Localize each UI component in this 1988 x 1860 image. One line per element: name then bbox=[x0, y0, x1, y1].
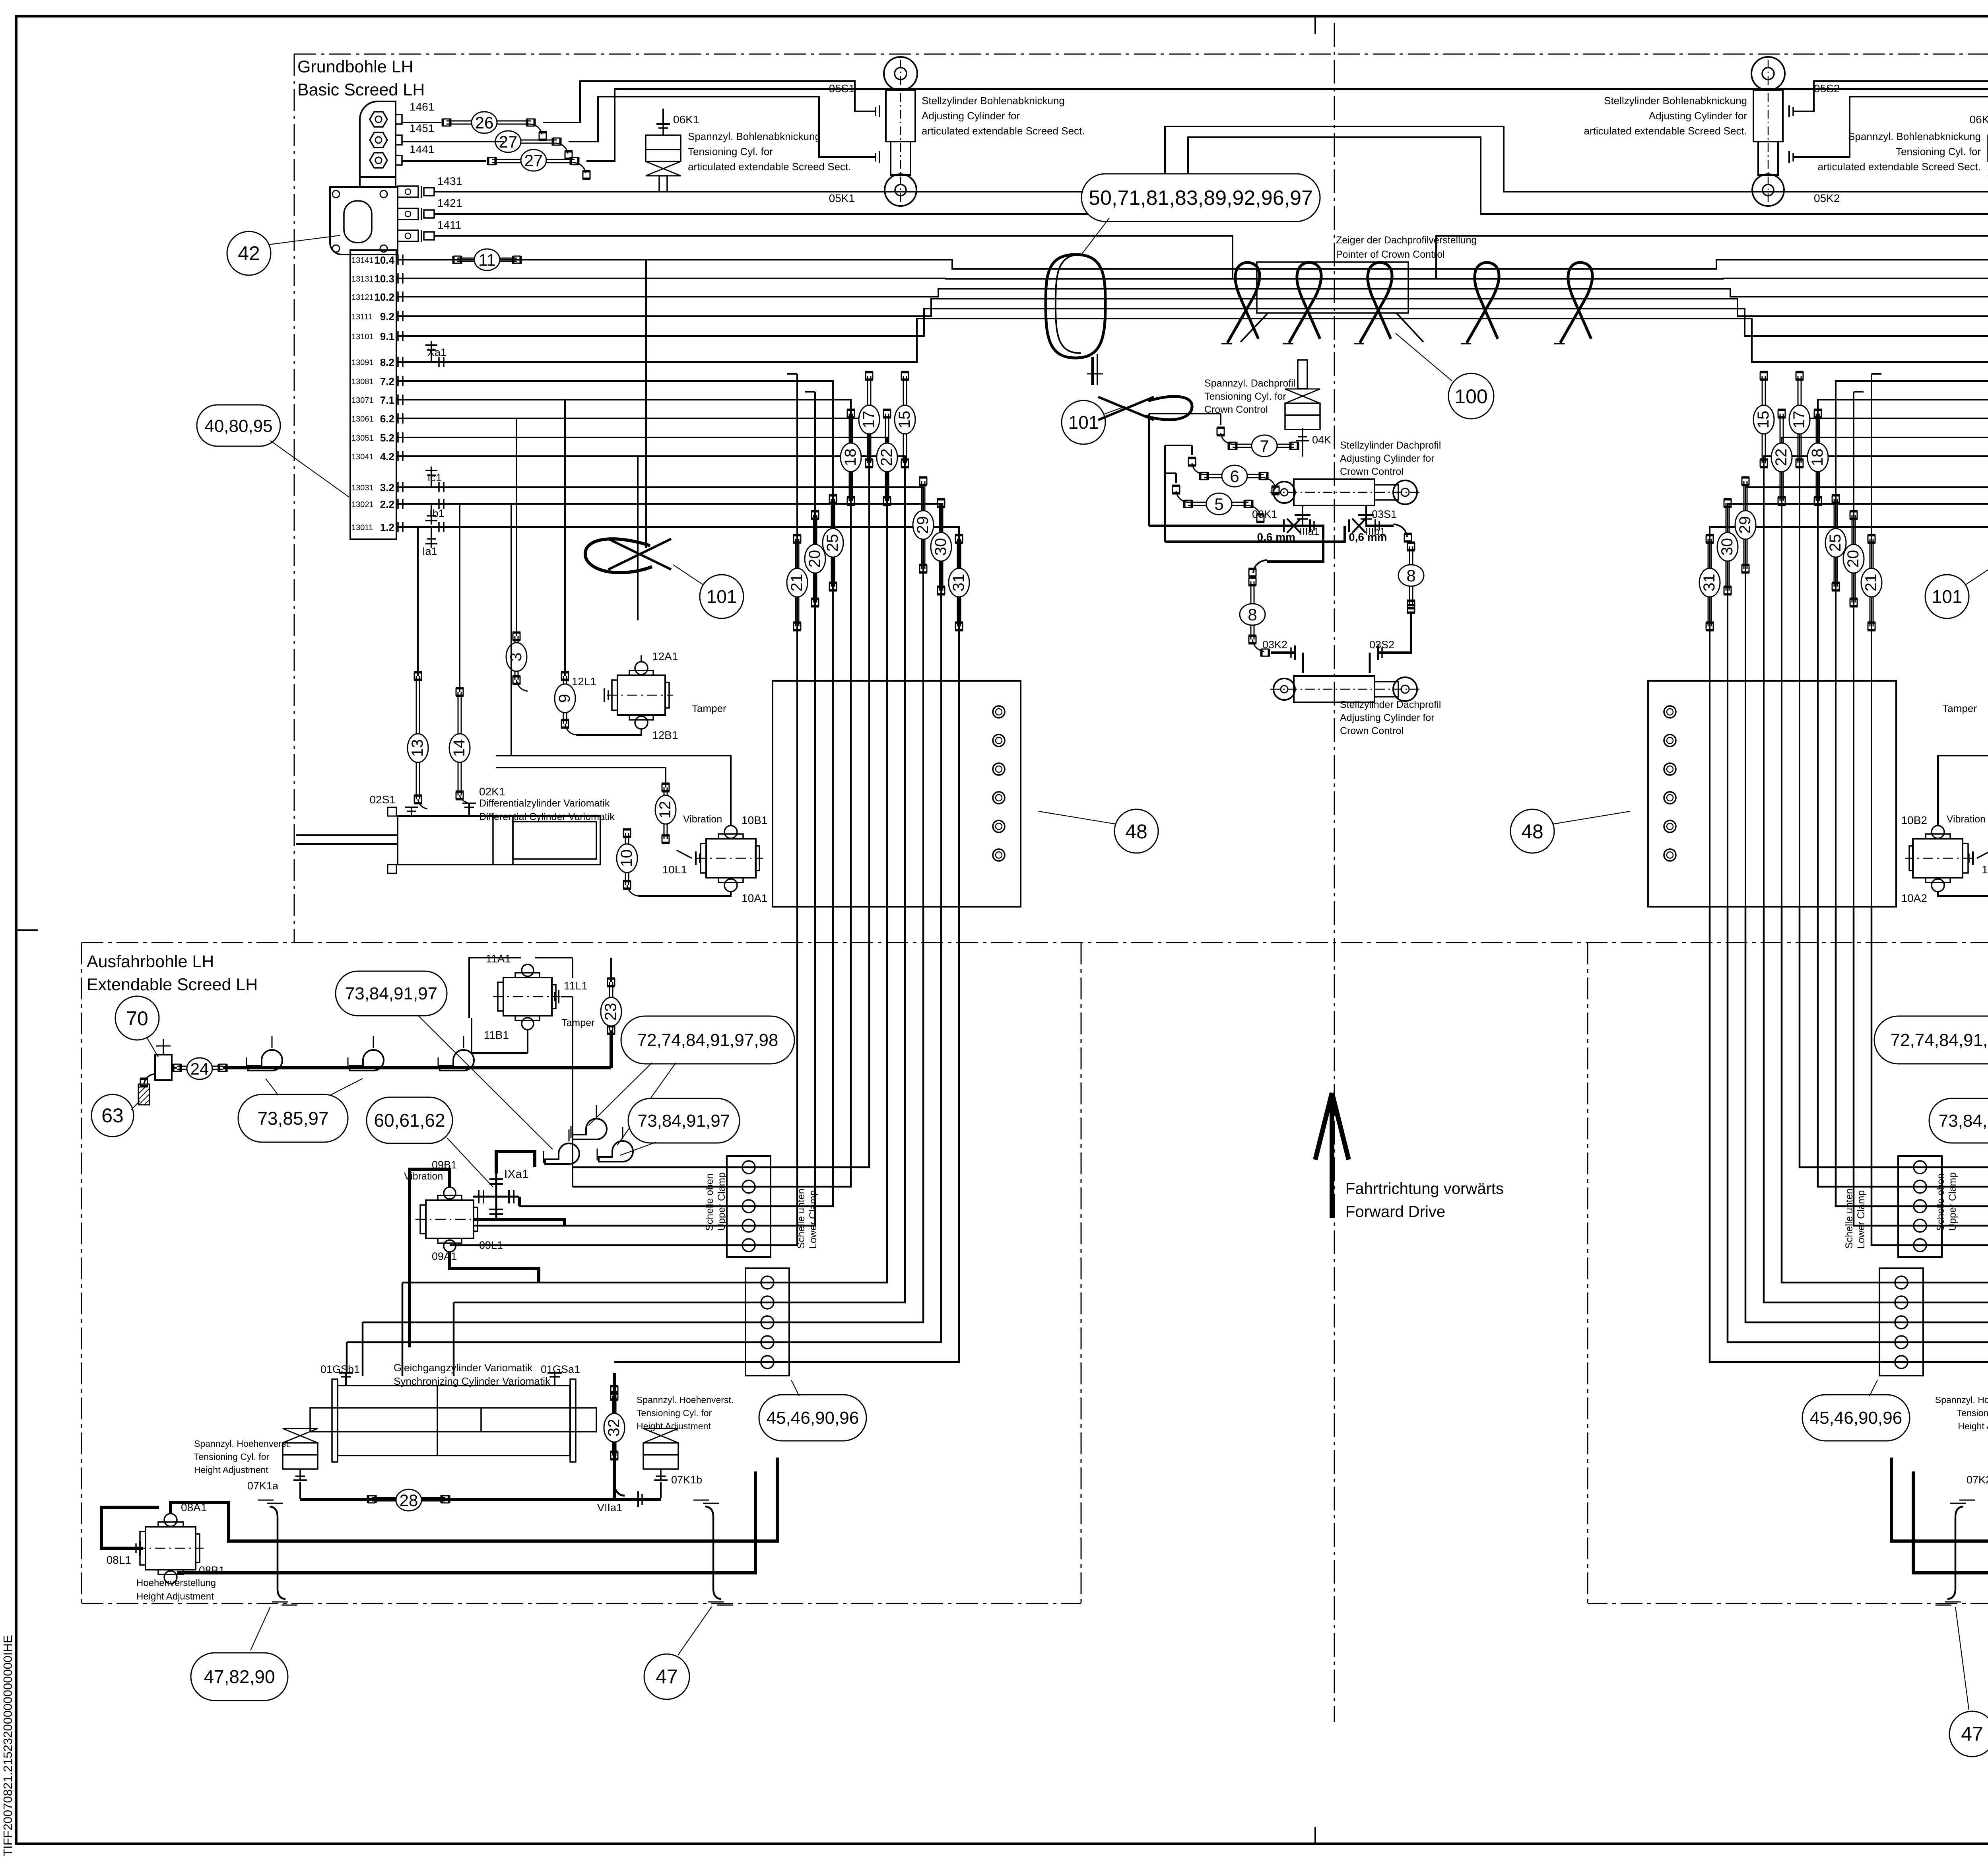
svg-text:05S2: 05S2 bbox=[1814, 82, 1840, 95]
svg-text:30: 30 bbox=[932, 538, 949, 556]
svg-text:1.2: 1.2 bbox=[380, 521, 394, 533]
svg-text:05K1: 05K1 bbox=[829, 192, 855, 204]
svg-text:7.1: 7.1 bbox=[380, 394, 394, 406]
svg-text:Spannzyl. Hoehenverst.: Spannzyl. Hoehenverst. bbox=[1935, 1395, 1988, 1405]
svg-text:Adjusting Cylinder for: Adjusting Cylinder for bbox=[1340, 453, 1435, 464]
svg-text:Spannzyl. Hoehenverst.: Spannzyl. Hoehenverst. bbox=[637, 1395, 734, 1405]
svg-text:1461: 1461 bbox=[410, 101, 434, 113]
svg-text:Stellzylinder Bohlenabknickung: Stellzylinder Bohlenabknickung bbox=[922, 95, 1065, 107]
svg-text:Synchronizing Cylinder Varioma: Synchronizing Cylinder Variomatik bbox=[394, 1375, 551, 1387]
svg-text:Tamper: Tamper bbox=[1942, 702, 1977, 714]
svg-text:1441: 1441 bbox=[410, 143, 434, 155]
svg-text:47: 47 bbox=[656, 1666, 678, 1688]
svg-text:10L2: 10L2 bbox=[1982, 863, 1988, 876]
svg-text:1421: 1421 bbox=[437, 197, 462, 209]
svg-text:Adjusting Cylinder for: Adjusting Cylinder for bbox=[1649, 110, 1747, 122]
svg-text:20: 20 bbox=[806, 550, 823, 568]
svg-text:13021: 13021 bbox=[351, 500, 374, 509]
svg-text:Zeiger der Dachprofilverstellu: Zeiger der Dachprofilverstellung bbox=[1336, 235, 1477, 246]
svg-text:TIFF20070821.21523200000000000: TIFF20070821.21523200000000000IHE bbox=[1, 1635, 15, 1856]
svg-text:6: 6 bbox=[1230, 467, 1239, 486]
svg-text:9.1: 9.1 bbox=[380, 330, 394, 342]
svg-text:Tensioning Cyl. for: Tensioning Cyl. for bbox=[637, 1408, 712, 1418]
svg-text:09A1: 09A1 bbox=[432, 1250, 457, 1262]
svg-text:47: 47 bbox=[1961, 1723, 1983, 1745]
svg-text:Ib1: Ib1 bbox=[429, 507, 445, 519]
svg-text:73,84,91,97: 73,84,91,97 bbox=[345, 984, 437, 1003]
svg-text:10.3: 10.3 bbox=[374, 273, 394, 285]
svg-text:Spannzyl. Dachprofil: Spannzyl. Dachprofil bbox=[1204, 378, 1295, 389]
svg-text:06K1: 06K1 bbox=[673, 113, 699, 126]
svg-text:13051: 13051 bbox=[351, 434, 374, 443]
svg-text:1431: 1431 bbox=[437, 175, 462, 187]
svg-text:4.2: 4.2 bbox=[380, 451, 394, 463]
svg-text:27: 27 bbox=[524, 151, 543, 170]
svg-text:Fahrtrichtung vorwärts: Fahrtrichtung vorwärts bbox=[1345, 1180, 1504, 1197]
svg-text:48: 48 bbox=[1125, 820, 1147, 843]
svg-text:25: 25 bbox=[1827, 534, 1844, 552]
svg-text:7: 7 bbox=[1260, 437, 1269, 455]
svg-text:13081: 13081 bbox=[351, 377, 374, 386]
svg-text:03K2: 03K2 bbox=[1262, 639, 1287, 651]
svg-text:Gleichgangzylinder Variomatik: Gleichgangzylinder Variomatik bbox=[394, 1362, 533, 1374]
svg-text:Upper Clamp: Upper Clamp bbox=[1947, 1172, 1958, 1231]
svg-text:13111: 13111 bbox=[351, 313, 373, 321]
svg-text:63: 63 bbox=[101, 1104, 124, 1127]
svg-text:Spannzyl. Bohlenabknickung: Spannzyl. Bohlenabknickung bbox=[688, 130, 821, 142]
svg-text:101: 101 bbox=[707, 586, 737, 607]
svg-text:Forward Drive: Forward Drive bbox=[1345, 1203, 1445, 1221]
svg-text:15: 15 bbox=[1755, 411, 1772, 429]
svg-text:articulated extendable Screed: articulated extendable Screed Sect. bbox=[1818, 161, 1981, 173]
svg-text:70: 70 bbox=[126, 1007, 148, 1030]
svg-text:45,46,90,96: 45,46,90,96 bbox=[767, 1408, 859, 1428]
svg-text:Grundbohle LH: Grundbohle LH bbox=[297, 57, 414, 76]
svg-text:14: 14 bbox=[450, 739, 468, 757]
svg-text:8: 8 bbox=[1248, 605, 1257, 624]
svg-text:3: 3 bbox=[507, 653, 525, 661]
svg-text:13121: 13121 bbox=[351, 293, 374, 302]
svg-text:07K2b: 07K2b bbox=[1967, 1474, 1988, 1486]
svg-text:18: 18 bbox=[842, 449, 859, 466]
svg-text:22: 22 bbox=[878, 449, 895, 466]
svg-text:01GSb1: 01GSb1 bbox=[320, 1363, 360, 1375]
svg-text:21: 21 bbox=[788, 574, 806, 592]
svg-text:2.2: 2.2 bbox=[380, 498, 394, 510]
svg-text:08A1: 08A1 bbox=[181, 1501, 207, 1514]
svg-text:13: 13 bbox=[409, 739, 426, 757]
svg-text:8: 8 bbox=[1406, 566, 1415, 585]
svg-text:10B1: 10B1 bbox=[742, 814, 767, 826]
svg-text:1451: 1451 bbox=[410, 122, 434, 134]
svg-text:articulated extendable Screed: articulated extendable Screed Sect. bbox=[688, 161, 851, 173]
svg-text:Spannzyl. Bohlenabknickung: Spannzyl. Bohlenabknickung bbox=[1848, 130, 1981, 142]
svg-text:07K1a: 07K1a bbox=[247, 1480, 279, 1492]
svg-text:8.2: 8.2 bbox=[380, 356, 394, 368]
svg-text:Ic1: Ic1 bbox=[427, 472, 442, 484]
svg-text:45,46,90,96: 45,46,90,96 bbox=[1810, 1408, 1902, 1428]
svg-text:02K1: 02K1 bbox=[479, 785, 505, 798]
svg-text:Stellzylinder Bohlenabknickung: Stellzylinder Bohlenabknickung bbox=[1604, 95, 1747, 107]
svg-text:72,74,84,91,97,98: 72,74,84,91,97,98 bbox=[637, 1030, 779, 1050]
svg-text:5.2: 5.2 bbox=[380, 432, 394, 444]
svg-text:Stellzylinder Dachprofil: Stellzylinder Dachprofil bbox=[1340, 699, 1441, 710]
svg-text:IIIa1: IIIa1 bbox=[1299, 525, 1320, 537]
svg-text:5: 5 bbox=[1214, 495, 1223, 513]
svg-text:Height Adjustment: Height Adjustment bbox=[136, 1591, 214, 1602]
svg-text:Schelle oben: Schelle oben bbox=[704, 1173, 715, 1231]
svg-text:Schelle unten: Schelle unten bbox=[796, 1188, 807, 1249]
svg-text:23: 23 bbox=[602, 1003, 619, 1021]
svg-text:Crown Control: Crown Control bbox=[1340, 466, 1404, 477]
svg-text:Tensioning Cyl. for: Tensioning Cyl. for bbox=[688, 146, 773, 157]
svg-text:Ausfahrbohle LH: Ausfahrbohle LH bbox=[87, 952, 214, 971]
svg-text:09B1: 09B1 bbox=[432, 1159, 457, 1171]
svg-text:03S2: 03S2 bbox=[1369, 639, 1394, 651]
svg-text:26: 26 bbox=[475, 113, 494, 132]
svg-text:11: 11 bbox=[478, 251, 496, 269]
svg-text:29: 29 bbox=[914, 516, 932, 534]
svg-text:30: 30 bbox=[1718, 538, 1736, 556]
svg-text:7.2: 7.2 bbox=[380, 375, 394, 387]
svg-text:60,61,62: 60,61,62 bbox=[374, 1110, 445, 1131]
svg-text:47,82,90: 47,82,90 bbox=[204, 1666, 275, 1687]
svg-text:48: 48 bbox=[1521, 820, 1543, 843]
svg-text:12L1: 12L1 bbox=[572, 675, 596, 688]
svg-text:72,74,84,91,97,98: 72,74,84,91,97,98 bbox=[1891, 1030, 1988, 1050]
svg-text:Height Adjustment: Height Adjustment bbox=[637, 1421, 711, 1431]
svg-text:15: 15 bbox=[896, 411, 913, 429]
svg-text:13011: 13011 bbox=[351, 523, 373, 532]
svg-text:50,71,81,83,89,92,96,97: 50,71,81,83,89,92,96,97 bbox=[1089, 187, 1313, 210]
svg-text:02S1: 02S1 bbox=[370, 793, 396, 806]
svg-text:25: 25 bbox=[824, 534, 841, 552]
svg-text:13041: 13041 bbox=[351, 453, 374, 461]
svg-text:13141: 13141 bbox=[351, 256, 374, 265]
svg-text:articulated extendable Screed: articulated extendable Screed Sect. bbox=[922, 125, 1085, 137]
svg-text:Vibration: Vibration bbox=[1947, 814, 1986, 825]
svg-text:22: 22 bbox=[1773, 449, 1790, 466]
svg-text:09L1: 09L1 bbox=[479, 1239, 503, 1251]
svg-text:10L1: 10L1 bbox=[662, 863, 687, 876]
svg-text:Crown Control: Crown Control bbox=[1204, 404, 1268, 415]
svg-text:articulated extendable Screed: articulated extendable Screed Sect. bbox=[1584, 125, 1747, 137]
svg-text:Xa1: Xa1 bbox=[427, 346, 447, 358]
svg-text:Schelle unten: Schelle unten bbox=[1844, 1188, 1855, 1249]
svg-text:IXa1: IXa1 bbox=[504, 1168, 529, 1181]
svg-text:Crown Control: Crown Control bbox=[1340, 725, 1404, 737]
svg-text:Vibration: Vibration bbox=[683, 814, 722, 825]
svg-text:10.4: 10.4 bbox=[374, 254, 394, 266]
svg-text:13071: 13071 bbox=[351, 396, 374, 405]
svg-text:Tensioning Cyl. for: Tensioning Cyl. for bbox=[1204, 391, 1286, 402]
svg-text:Spannzyl. Hoehenverst.: Spannzyl. Hoehenverst. bbox=[194, 1438, 291, 1449]
svg-text:Lower Clamp: Lower Clamp bbox=[1856, 1190, 1867, 1249]
svg-text:Adjusting Cylinder for: Adjusting Cylinder for bbox=[922, 110, 1020, 122]
svg-text:Vibration: Vibration bbox=[404, 1171, 443, 1182]
svg-text:17: 17 bbox=[1790, 411, 1808, 429]
svg-text:40,80,95: 40,80,95 bbox=[204, 416, 272, 436]
svg-text:32: 32 bbox=[605, 1419, 623, 1437]
svg-text:13091: 13091 bbox=[351, 358, 374, 367]
svg-text:Tamper: Tamper bbox=[692, 702, 726, 714]
svg-text:08B1: 08B1 bbox=[199, 1564, 225, 1576]
svg-text:73,84,91,97: 73,84,91,97 bbox=[1939, 1111, 1988, 1131]
svg-text:29: 29 bbox=[1736, 516, 1754, 534]
svg-text:9.2: 9.2 bbox=[380, 311, 394, 323]
svg-text:31: 31 bbox=[950, 574, 967, 592]
svg-text:0,6 mm: 0,6 mm bbox=[1257, 531, 1296, 543]
svg-text:100: 100 bbox=[1454, 385, 1487, 408]
svg-text:9: 9 bbox=[556, 694, 573, 703]
svg-text:0,6 mm: 0,6 mm bbox=[1349, 531, 1387, 543]
svg-text:21: 21 bbox=[1862, 574, 1880, 592]
svg-text:73,85,97: 73,85,97 bbox=[257, 1108, 328, 1129]
svg-text:31: 31 bbox=[1701, 574, 1718, 592]
svg-text:12: 12 bbox=[656, 801, 674, 819]
svg-text:11B1: 11B1 bbox=[484, 1029, 509, 1041]
svg-text:03S1: 03S1 bbox=[1372, 508, 1397, 520]
svg-text:Adjusting Cylinder for: Adjusting Cylinder for bbox=[1340, 712, 1435, 723]
svg-text:10B2: 10B2 bbox=[1901, 814, 1927, 826]
svg-text:VIIa1: VIIa1 bbox=[597, 1502, 622, 1514]
svg-text:Stellzylinder Dachprofil: Stellzylinder Dachprofil bbox=[1340, 440, 1441, 451]
svg-text:Upper Clamp: Upper Clamp bbox=[716, 1172, 727, 1231]
svg-text:Basic Screed LH: Basic Screed LH bbox=[297, 80, 425, 99]
svg-text:Tamper: Tamper bbox=[561, 1017, 594, 1028]
svg-text:Tensioning Cyl. for: Tensioning Cyl. for bbox=[1957, 1408, 1988, 1418]
svg-text:10: 10 bbox=[618, 849, 635, 867]
svg-text:28: 28 bbox=[400, 1491, 418, 1510]
svg-text:11A1: 11A1 bbox=[486, 952, 511, 965]
svg-text:27: 27 bbox=[499, 132, 518, 151]
svg-text:Pointer of Crown Control: Pointer of Crown Control bbox=[1336, 249, 1445, 260]
svg-text:Tensioning Cyl. for: Tensioning Cyl. for bbox=[194, 1452, 270, 1462]
svg-text:6.2: 6.2 bbox=[380, 413, 394, 425]
svg-text:1411: 1411 bbox=[437, 219, 461, 231]
svg-text:08L1: 08L1 bbox=[107, 1554, 131, 1566]
svg-text:03K1: 03K1 bbox=[1252, 508, 1277, 520]
svg-text:Ia1: Ia1 bbox=[422, 545, 437, 557]
svg-text:12A1: 12A1 bbox=[652, 650, 678, 663]
svg-text:17: 17 bbox=[860, 411, 878, 429]
svg-text:Hoehenverstellung: Hoehenverstellung bbox=[136, 1578, 216, 1588]
svg-text:10A1: 10A1 bbox=[742, 892, 767, 904]
svg-text:Lower Clamp: Lower Clamp bbox=[808, 1190, 819, 1249]
svg-text:20: 20 bbox=[1844, 550, 1862, 568]
svg-text:06K2: 06K2 bbox=[1970, 113, 1988, 126]
svg-text:01GSa1: 01GSa1 bbox=[541, 1363, 580, 1375]
svg-text:05K2: 05K2 bbox=[1814, 192, 1840, 204]
svg-text:05S1: 05S1 bbox=[829, 82, 855, 95]
svg-text:12B1: 12B1 bbox=[652, 729, 678, 741]
svg-text:04K: 04K bbox=[1312, 434, 1331, 446]
svg-text:73,84,91,97: 73,84,91,97 bbox=[638, 1111, 730, 1131]
svg-text:10.2: 10.2 bbox=[374, 291, 394, 303]
svg-text:13101: 13101 bbox=[351, 332, 374, 341]
svg-text:101: 101 bbox=[1068, 412, 1099, 433]
svg-text:07K1b: 07K1b bbox=[671, 1474, 702, 1486]
svg-text:101: 101 bbox=[1932, 586, 1963, 607]
svg-text:13061: 13061 bbox=[351, 415, 374, 424]
svg-text:Extendable Screed LH: Extendable Screed LH bbox=[87, 975, 258, 994]
svg-text:13031: 13031 bbox=[351, 484, 374, 492]
svg-text:10A2: 10A2 bbox=[1901, 892, 1927, 904]
svg-text:Height Adjustment: Height Adjustment bbox=[194, 1465, 268, 1475]
svg-text:Differentialzylinder Variomati: Differentialzylinder Variomatik bbox=[479, 798, 610, 809]
svg-text:42: 42 bbox=[238, 242, 260, 264]
svg-text:24: 24 bbox=[190, 1059, 209, 1078]
svg-text:Height Adjustment: Height Adjustment bbox=[1958, 1421, 1988, 1431]
svg-text:13131: 13131 bbox=[351, 275, 374, 284]
svg-text:Schelle oben: Schelle oben bbox=[1935, 1173, 1946, 1231]
svg-text:Tensioning Cyl. for: Tensioning Cyl. for bbox=[1896, 146, 1981, 157]
svg-text:Differential Cylinder Variomat: Differential Cylinder Variomatik bbox=[479, 811, 615, 822]
svg-text:18: 18 bbox=[1809, 449, 1826, 466]
svg-text:11L1: 11L1 bbox=[564, 980, 588, 992]
svg-text:3.2: 3.2 bbox=[380, 482, 394, 494]
